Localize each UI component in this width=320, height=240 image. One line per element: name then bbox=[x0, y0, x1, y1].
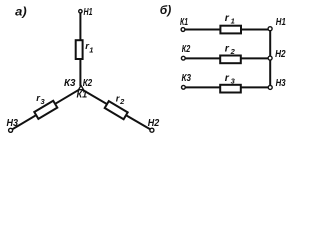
svg-text:Н2: Н2 bbox=[148, 118, 160, 129]
svg-text:2: 2 bbox=[119, 97, 125, 106]
node H3 (part b) bbox=[268, 85, 272, 89]
terminal H1 (part a) bbox=[79, 10, 82, 13]
node H1 (part b) bbox=[268, 27, 272, 31]
terminal K3 (part b) bbox=[182, 85, 186, 89]
wire r3 to H3 node bbox=[241, 86, 268, 88]
wire r1 to center node bbox=[79, 60, 81, 86]
wire r1 to H1 node bbox=[241, 29, 268, 31]
wire K2 to resistor r2 bbox=[185, 57, 221, 59]
resistor r2 (part a, tilted) bbox=[105, 101, 128, 119]
node H2 (part b) bbox=[268, 56, 272, 60]
svg-text:К3: К3 bbox=[64, 78, 76, 89]
svg-text:1: 1 bbox=[89, 46, 93, 55]
svg-text:К1: К1 bbox=[180, 17, 188, 28]
svg-text:К1: К1 bbox=[77, 89, 88, 100]
svg-text:2: 2 bbox=[230, 47, 236, 56]
resistor r1 (part a, vertical) bbox=[76, 40, 83, 59]
svg-text:а): а) bbox=[15, 5, 27, 19]
resistor r1 (part b) bbox=[220, 26, 241, 34]
wire H1 to resistor r1 bbox=[79, 13, 81, 40]
svg-text:Н2: Н2 bbox=[275, 48, 286, 60]
svg-text:1: 1 bbox=[231, 16, 235, 25]
wire r2 to H2 node bbox=[241, 57, 268, 59]
resistor r3 (part b) bbox=[220, 85, 241, 93]
wire right bus H1-H2-H3 bbox=[269, 29, 271, 87]
wire K1 to resistor r1 bbox=[185, 29, 221, 31]
resistor r2 (part b) bbox=[220, 56, 241, 64]
svg-text:К3: К3 bbox=[182, 73, 192, 84]
resistor r3 (part a, tilted) bbox=[34, 101, 57, 119]
svg-text:б): б) bbox=[160, 3, 171, 17]
svg-text:Н1: Н1 bbox=[276, 16, 286, 28]
terminal K1 (part b) bbox=[181, 28, 185, 32]
wire left diagonal to H3 bbox=[12, 90, 79, 130]
wire right diagonal to H2 bbox=[82, 90, 150, 130]
svg-text:Н1: Н1 bbox=[84, 7, 93, 18]
terminal H3 (part a) bbox=[9, 128, 13, 132]
terminal H2 (part a) bbox=[150, 128, 154, 132]
wire K3 to resistor r3 bbox=[185, 86, 220, 88]
svg-text:К2: К2 bbox=[182, 44, 191, 55]
svg-text:К2: К2 bbox=[83, 78, 93, 89]
svg-text:Н3: Н3 bbox=[276, 77, 286, 89]
svg-text:Н3: Н3 bbox=[7, 118, 19, 129]
terminal K2 (part b) bbox=[181, 56, 185, 60]
node K1/K2/K3 junction triangle bbox=[79, 85, 84, 89]
